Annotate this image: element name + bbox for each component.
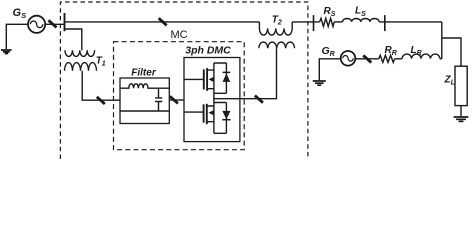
svg-text:LS: LS (355, 6, 366, 18)
source GR (341, 51, 356, 66)
svg-text:T1: T1 (96, 56, 106, 68)
slash (3-phase) on GS wire (49, 20, 57, 27)
transformer T1 secondary (65, 63, 97, 71)
ground (left) (1, 50, 12, 54)
transistor Q2 (bottom cell MOSFET) (184, 111, 204, 113)
filter capacitor (155, 88, 162, 111)
filter top wire with inductor (120, 84, 169, 88)
svg-text:RS: RS (324, 6, 336, 18)
3ph DMC box (184, 58, 240, 142)
transformer T1 primary (65, 50, 95, 56)
wire T1 to filter (82, 71, 120, 100)
outer dashed box (MC system boundary) (60, 2, 308, 159)
slash on DMC-T2 wire (255, 96, 263, 103)
filter box (120, 78, 169, 124)
svg-text:GR: GR (322, 45, 335, 58)
svg-text:3ph DMC: 3ph DMC (185, 44, 231, 56)
wire LR to junction (440, 58, 442, 60)
diode D1 (top cell) (225, 63, 227, 93)
wire junction vertical (441, 22, 443, 59)
transistor Q1 (top cell MOSFET) (184, 78, 204, 80)
svg-text:LR: LR (411, 45, 422, 57)
wire bus to T1 (65, 29, 82, 50)
svg-text:ZL: ZL (444, 75, 455, 87)
transformer T2 primary (259, 22, 292, 35)
wire LS to junction (379, 21, 442, 23)
wire GS to ground (6, 24, 28, 49)
ground (GR) (313, 81, 326, 85)
resistor RS (320, 18, 335, 26)
slash on filter-DMC wire (170, 96, 178, 103)
wire ZL to ground (460, 106, 462, 117)
wire DMC output to T2 (214, 48, 277, 98)
wire GR to ground (319, 59, 340, 80)
transformer T2 secondary (259, 42, 295, 48)
bus bar (64, 13, 66, 31)
inner dashed box MC (114, 42, 245, 150)
load ZL (455, 66, 467, 105)
wire T2 to RS (292, 21, 319, 23)
source GS (28, 16, 45, 33)
slash on top line (159, 18, 167, 25)
resistor RR (379, 55, 395, 62)
wire GR to RR (355, 58, 379, 60)
svg-text:RR: RR (385, 45, 397, 57)
slash on GR wire (363, 55, 371, 62)
slash on T1-filter wire (97, 97, 105, 104)
diode D2 (bottom cell) (225, 103, 227, 134)
inductor LR (402, 54, 440, 59)
wire junction to ZL (442, 38, 461, 66)
filter bottom wire (120, 110, 169, 112)
terminal bar (right of LS) (384, 15, 386, 31)
wire RS to LS (334, 21, 342, 23)
svg-text:Filter: Filter (131, 68, 157, 79)
wire GS to bus (45, 23, 64, 25)
ground (ZL) (454, 117, 469, 121)
svg-text:MC: MC (170, 29, 187, 41)
terminal bar (left of RS) (313, 15, 315, 31)
wire filter to DMC (169, 99, 184, 101)
wire top line (bus to T2) (65, 21, 260, 23)
svg-text:T2: T2 (272, 14, 282, 26)
svg-text:GS: GS (13, 7, 27, 20)
inductor LS (343, 18, 380, 21)
wire RR to LR (395, 58, 403, 60)
